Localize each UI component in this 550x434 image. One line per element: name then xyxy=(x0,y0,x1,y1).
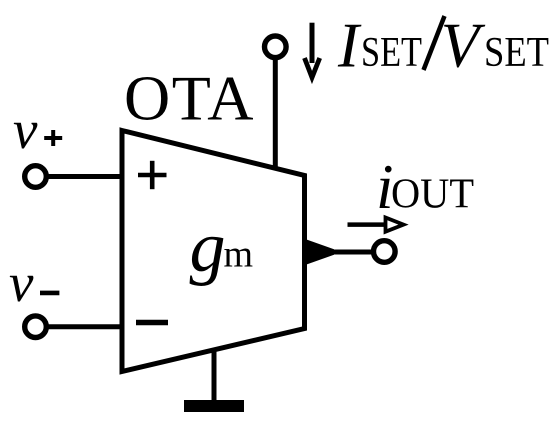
wire v+ input xyxy=(46,174,122,179)
output arrowhead (filled triangle at OTA tip) xyxy=(307,240,335,265)
op-amp U1 OTA trapezoid body xyxy=(122,131,305,372)
svg-text:v: v xyxy=(13,99,38,160)
arrow iOUT direction (right arrow, open head) xyxy=(348,218,404,232)
svg-text:g: g xyxy=(190,207,226,287)
wire output xyxy=(330,250,372,255)
svg-text:OTA: OTA xyxy=(124,63,255,134)
svg-text:SET: SET xyxy=(484,30,549,76)
terminal v- (open circle) xyxy=(25,316,47,338)
svg-text:v: v xyxy=(9,252,34,313)
svg-text:V: V xyxy=(441,11,486,81)
terminal iOUT (open circle) xyxy=(374,241,396,263)
arrow ISET direction (down arrow) xyxy=(305,23,320,78)
svg-text:SET: SET xyxy=(361,30,422,76)
svg-text:OUT: OUT xyxy=(391,172,474,218)
label ISET/VSET xyxy=(337,11,549,81)
svg-text:I: I xyxy=(337,11,362,81)
wire set input (vertical) xyxy=(273,52,278,170)
wire v- input xyxy=(46,324,122,329)
ground xyxy=(184,349,244,412)
minus sign (inverting input pin) xyxy=(136,320,168,325)
terminal ISET/VSET (open circle) xyxy=(265,36,287,58)
terminal v+ (open circle) xyxy=(25,166,47,188)
plus sign (non-inverting input pin) xyxy=(138,161,167,189)
svg-text:m: m xyxy=(224,234,254,276)
